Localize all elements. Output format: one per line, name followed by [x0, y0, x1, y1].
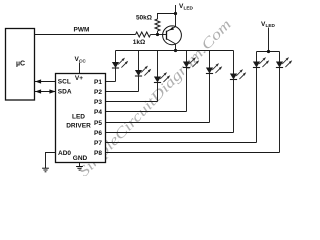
junction VLED node [174, 12, 177, 15]
wire anode drop D7 [256, 52, 258, 62]
svg-text:SDA: SDA [58, 89, 72, 96]
wire bus drop D6 [233, 51, 235, 74]
supply VCC [75, 56, 87, 74]
svg-text:SCL: SCL [58, 78, 71, 85]
svg-text:P5: P5 [94, 120, 102, 127]
wire bus drop D5 [209, 51, 211, 68]
wire cathode D5 to P5 [209, 74, 211, 123]
svg-text:P7: P7 [94, 140, 102, 147]
svg-text:P4: P4 [94, 109, 102, 116]
supply VLED right [257, 21, 280, 52]
wire bus drop D4 [186, 51, 188, 62]
LED D2 [135, 66, 151, 76]
svg-text:P2: P2 [94, 89, 102, 96]
svg-text:50kΩ: 50kΩ [136, 15, 152, 22]
wire to base [151, 34, 167, 36]
wire bus drop D3 [157, 51, 159, 77]
microcontroller uC [6, 29, 35, 101]
wire PWM [35, 34, 136, 36]
svg-text:LED: LED [184, 5, 194, 10]
wire bus drop D2 [138, 51, 140, 71]
wire cathode D4 to P4 [186, 68, 188, 112]
wire cathode D8 [279, 68, 281, 153]
wire P7 [106, 142, 257, 144]
wire bus drop D1 [115, 51, 117, 63]
transistor Q1 PNP [163, 26, 182, 51]
ground GND [76, 167, 83, 171]
svg-text:AD0: AD0 [58, 150, 71, 157]
wire P5 [106, 122, 210, 124]
supply VLED left [176, 3, 194, 26]
LED D7 [253, 57, 269, 67]
wire P2 [106, 91, 139, 93]
wire P4 [106, 111, 187, 113]
svg-text:LED: LED [72, 114, 85, 121]
svg-text:CC: CC [79, 58, 86, 63]
wire SCL [35, 79, 56, 83]
wire P1 [106, 81, 116, 83]
resistor R2 1k [133, 32, 151, 46]
wire SDA [35, 89, 56, 93]
svg-text:P8: P8 [94, 150, 102, 157]
wire anode drop D8 [279, 52, 281, 62]
svg-text:µC: µC [16, 61, 25, 68]
wire GND [79, 163, 81, 167]
wire AD0 [46, 153, 56, 169]
LED D3 [154, 72, 170, 82]
wire cathode D6 to P6 [233, 80, 235, 133]
LED D8 [276, 57, 292, 67]
LED D4 [183, 57, 199, 67]
svg-text:P6: P6 [94, 130, 102, 137]
svg-text:GND: GND [73, 155, 88, 162]
junction right VLED [267, 50, 270, 53]
LED D6 [230, 69, 246, 79]
wire P6 [106, 132, 234, 134]
junction base node [156, 33, 159, 36]
IC LED driver [56, 74, 106, 163]
wire anode bus [116, 50, 234, 52]
wire cathode D2 to P2 [138, 76, 140, 92]
svg-text:P1: P1 [94, 79, 102, 86]
svg-text:P3: P3 [94, 99, 102, 106]
ground AD0 [42, 168, 49, 172]
svg-text:V+: V+ [75, 75, 83, 82]
LED D1 [112, 58, 128, 68]
wire cathode D3 to P3 [157, 83, 159, 102]
junction collector-bus [174, 49, 177, 52]
svg-text:PWM: PWM [74, 26, 90, 33]
wire P3 [106, 101, 158, 103]
svg-text:1kΩ: 1kΩ [133, 39, 145, 46]
resistor R1 50k [136, 15, 160, 35]
wire P8 [106, 152, 280, 154]
wire cathode D7 [256, 68, 258, 143]
wire 50k to VLED [158, 14, 176, 20]
svg-text:LED: LED [266, 23, 276, 28]
LED D5 [206, 63, 222, 73]
svg-text:DRIVER: DRIVER [66, 123, 91, 130]
wire cathode D1 to P1 [115, 68, 117, 82]
